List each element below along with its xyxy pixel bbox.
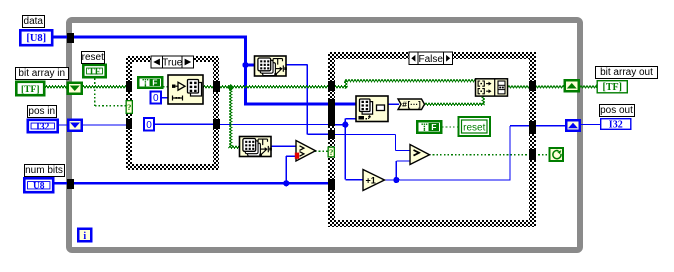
wire [218,86,329,88]
tunnel num bits into False case [328,179,335,191]
function Index Array [356,96,388,122]
wire [162,97,168,99]
shift register right (pos) [566,120,580,131]
wire [345,118,359,120]
wire [509,126,511,181]
tunnel loop condition out of False case [529,149,536,160]
label bit array in [15,67,69,80]
node incr-junction [393,177,399,183]
wire F-to-reset-local dotted [442,126,458,128]
function Array Size (data) [255,56,287,76]
wire bit-array-in zigzag [45,86,67,88]
terminal bit array in [TF] [16,82,44,95]
wire [580,86,597,88]
function Initialize Array [168,75,203,104]
terminal bit array out [TF] [597,81,627,93]
wire [244,103,356,106]
wire [73,182,329,184]
wire [244,36,247,104]
wire [203,86,214,88]
selector terminal True case [126,101,132,114]
comparison Greater [410,145,430,165]
terminal reset TF [83,65,105,77]
svg-text:[U8]: [U8] [26,33,46,44]
tunnel bit array out of True case [213,81,220,92]
wire [395,135,397,151]
wire [396,160,410,162]
wire [334,86,348,88]
label reset [81,51,106,64]
wire [218,124,329,126]
node bitarray-junction [227,84,234,91]
comparison Greater-Or-Equal [296,141,316,162]
wire [334,134,396,136]
wire [285,156,287,183]
shift register left (bit array) [68,83,82,94]
selector terminal False case [328,147,334,157]
terminal num bits U8 [24,178,53,192]
wire [384,179,510,181]
tunnel pos into False case [328,111,335,126]
case selector label False [409,52,453,65]
tunnel pos out of True case [213,119,220,130]
loop condition terminal [550,148,564,161]
wire [272,145,297,147]
constant 0 (pos reset) [144,118,154,131]
boolean constant False (False case) [417,121,441,133]
svg-text:[TF]: [TF] [21,85,39,95]
wire [286,155,296,157]
case False interior [335,59,529,221]
svg-text:[TF]: [TF] [603,82,622,93]
wire F-to-InitArray dotted [163,86,169,88]
wire [345,179,363,181]
wire tunnel-to-loopcond dotted [535,154,550,156]
wire [82,124,126,126]
shift register left (pos) [68,120,82,131]
wire [229,146,241,148]
svg-text:I32: I32 [36,122,49,132]
svg-text:I32: I32 [609,119,623,130]
node data-junction [242,62,248,68]
wire [345,80,477,82]
wire [482,96,484,104]
iteration terminal i [78,229,91,242]
wire [53,36,247,39]
boolean constant False (True case) [138,77,162,88]
wire [535,86,566,88]
wire [395,161,397,180]
wire [95,105,126,107]
wire [54,182,67,184]
wire [155,123,215,125]
tunnel pos out of False case [529,121,536,134]
tunnel data into False case [328,99,335,111]
while loop border [66,17,583,253]
function Replace Array Subset [476,79,508,96]
case selector label True [151,56,194,68]
terminal pos in I32 [28,120,58,132]
label data [22,15,46,28]
wire [286,64,307,66]
wire GE-to-selector dotted [315,150,328,152]
wire [388,103,399,105]
coercion dot [295,153,299,159]
tunnel bit array into False case [328,81,335,92]
label num bits [24,164,65,177]
constant 0 (init array size) [151,92,162,104]
wire [334,124,345,126]
label bit array out [595,66,658,79]
tunnel pos into True case [126,119,133,130]
tunnel data element into False case [328,130,335,140]
function Number To Boolean Array [398,99,425,110]
tunnel num bits into loop [67,179,74,190]
wire [425,103,485,105]
function Array Size (bit array) [240,137,272,157]
node numbits-junction [283,180,289,186]
case structure True border [126,56,220,170]
wire [307,133,334,135]
wire [580,124,600,126]
tunnel bit array into True case [126,81,133,92]
wire [508,86,531,88]
wire [344,119,346,125]
wire [82,86,127,88]
wire [535,125,567,127]
wire [510,125,530,127]
wire [230,89,232,147]
wire Greater-out dotted [429,154,530,156]
label pos out [599,104,635,117]
wire [396,150,411,152]
terminal pos out I32 [601,119,631,130]
function Increment +1 [363,170,385,191]
label pos in [27,105,57,118]
wire [306,65,308,135]
terminal data [U8] [20,30,52,45]
shift register right (bit array) [565,80,579,91]
wire reset-TF dotted [94,79,96,106]
tunnel bit array out of False case [529,81,536,92]
wire [59,124,69,126]
svg-text:U8: U8 [33,182,45,192]
wire [344,125,346,180]
node pos-junction [342,122,348,128]
tunnel data into loop [67,33,74,43]
case structure False border [328,52,536,228]
wire [345,81,347,89]
local variable reset [459,117,491,136]
case True interior [132,62,214,164]
wire [246,64,255,67]
